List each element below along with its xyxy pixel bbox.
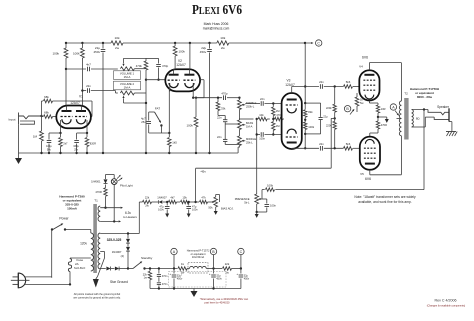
svg-text:5w: 5w bbox=[360, 101, 363, 105]
tube V3 triode a internals bbox=[287, 99, 297, 101]
transformer T2 core bbox=[404, 98, 408, 140]
svg-text:450v: 450v bbox=[216, 278, 222, 281]
svg-text:V5: V5 bbox=[360, 172, 364, 176]
pilot light lamp bbox=[105, 175, 107, 180]
diode 1N4007 (top) bbox=[126, 239, 130, 243]
ground arrow presence bbox=[256, 212, 258, 214]
svg-text:Speaker: Speaker bbox=[437, 105, 450, 109]
svg-text:Mark Huss 2006: Mark Huss 2006 bbox=[204, 22, 229, 26]
svg-text:68k: 68k bbox=[44, 110, 49, 114]
svg-text:2w: 2w bbox=[145, 204, 148, 208]
capacitor 47u 100v bias filter 1 bbox=[166, 202, 168, 206]
svg-text:100k: 100k bbox=[187, 124, 194, 128]
svg-text:4n7: 4n7 bbox=[86, 63, 91, 67]
node C terminal (preamp feed) bbox=[238, 248, 244, 254]
svg-text:22n: 22n bbox=[217, 115, 222, 119]
input jack J1 bbox=[18, 113, 20, 125]
svg-text:T1: T1 bbox=[94, 199, 98, 203]
svg-text:47k: 47k bbox=[201, 196, 206, 200]
resistor 470R V5 cathode bbox=[377, 117, 379, 121]
transformer T1 core bbox=[93, 204, 97, 273]
wire plug to fuse bbox=[25, 283, 70, 285]
potentiometer MIDDLE 25k-L bbox=[238, 136, 242, 146]
switch Standby bbox=[128, 268, 133, 270]
svg-text:Standby: Standby bbox=[141, 256, 153, 260]
resistor 1k5 V2a cathode bbox=[168, 133, 170, 137]
resistor 22k 2w bias feed bbox=[143, 200, 152, 203]
capacitor 32u 450v filter A bbox=[173, 269, 175, 274]
svg-text:4μ7: 4μ7 bbox=[141, 117, 146, 121]
svg-text:450v: 450v bbox=[177, 278, 183, 281]
svg-text:22n: 22n bbox=[319, 142, 324, 146]
wire to V2a grid bbox=[146, 79, 165, 81]
star ground symbol bbox=[96, 277, 98, 280]
resistor 470R tail bbox=[273, 118, 274, 120]
svg-text:22n: 22n bbox=[217, 135, 222, 139]
svg-text:8Ω: 8Ω bbox=[416, 116, 420, 120]
resistor 68k grid stopper (top) bbox=[42, 100, 44, 102]
capacitor 32u 450v filter B bbox=[213, 269, 215, 274]
svg-text:470n: 470n bbox=[162, 275, 168, 278]
tube V5 internals bbox=[365, 139, 374, 143]
pin V1a cathode bbox=[60, 120, 62, 133]
capacitor 22n V3a grid bbox=[260, 101, 262, 106]
svg-text:1N4001: 1N4001 bbox=[91, 180, 101, 184]
resistor 68k grid stopper (bottom) bbox=[42, 116, 44, 118]
svg-text:C: C bbox=[317, 41, 320, 45]
resistor 4k7 bias bbox=[163, 201, 168, 203]
wire treble wiper to V3 grid bbox=[245, 103, 260, 105]
svg-text:22n: 22n bbox=[260, 97, 265, 101]
svg-text:150mA: 150mA bbox=[67, 207, 78, 211]
switch power bbox=[53, 224, 62, 229]
capacitor 470n (bottom) bbox=[158, 277, 160, 281]
capacitor 100u 50v V1a cathode bypass bbox=[49, 132, 61, 134]
choke Hammond P-T157J bbox=[190, 266, 207, 268]
svg-text:+: + bbox=[169, 272, 171, 276]
svg-text:10R: 10R bbox=[381, 107, 386, 111]
diode 1N4007 (left horizontal) bbox=[106, 267, 110, 271]
capacitor 330u 25v V1b cathode bypass bbox=[77, 132, 87, 134]
resistor 33k slope bbox=[217, 98, 219, 102]
svg-text:+: + bbox=[236, 272, 238, 276]
svg-text:available, and work fine for t: available, and work fine for this amp. bbox=[358, 200, 412, 204]
resistor 10k 2w decoupling (right) bbox=[217, 41, 229, 45]
resistor 1k 5w filter bbox=[178, 267, 187, 271]
wire grid node riser bbox=[41, 101, 43, 117]
node B screen supply terminal bbox=[344, 106, 350, 112]
svg-text:Power: Power bbox=[59, 217, 69, 221]
svg-text:120v: 120v bbox=[80, 242, 87, 246]
svg-text:100k: 100k bbox=[179, 50, 186, 54]
svg-text:15k: 15k bbox=[182, 196, 187, 200]
chassis ground symbol (preamp) bbox=[18, 153, 20, 158]
resistor 22k 1w bleeder bbox=[149, 269, 151, 272]
resistor 2k7 V1a cathode bbox=[60, 133, 62, 137]
wire V2b plate to rail bbox=[189, 43, 191, 69]
diode 1N4007 (right horizontal) bbox=[111, 268, 115, 270]
resistor 15k bias bbox=[177, 201, 181, 203]
tube V3 12AX7 phase inverter envelope bbox=[282, 93, 302, 149]
dashed box multi-section cap bbox=[169, 272, 227, 288]
svg-text:5k6: 5k6 bbox=[346, 142, 351, 146]
resistor 100k V2b grid leak bbox=[195, 98, 197, 117]
wire bus end rise to middle pot bbox=[237, 147, 239, 153]
svg-text:12AX7: 12AX7 bbox=[70, 101, 80, 105]
svg-text:100n: 100n bbox=[270, 204, 276, 208]
svg-text:10k: 10k bbox=[259, 113, 264, 117]
svg-text:+: + bbox=[209, 272, 211, 276]
wire to V1b grid bbox=[91, 101, 93, 117]
diode 1N4007 bias bbox=[152, 201, 159, 203]
svg-text:50k: 50k bbox=[208, 205, 213, 209]
potentiometer VOLUME 1 1M-A bbox=[120, 67, 134, 71]
junction V2 grid node bbox=[145, 79, 147, 81]
speaker jack J2 tip contact bbox=[428, 110, 449, 115]
svg-text:1M-A: 1M-A bbox=[124, 75, 131, 79]
wire to V3b grid with cap bbox=[257, 134, 260, 136]
svg-text:6V6: 6V6 bbox=[365, 177, 371, 181]
svg-text:100v: 100v bbox=[192, 208, 198, 212]
junction -45v node bbox=[194, 201, 196, 203]
wire cathode follower to tone stack bbox=[193, 97, 222, 99]
svg-text:Pilot Light: Pilot Light bbox=[120, 184, 133, 188]
svg-text:100k: 100k bbox=[308, 125, 314, 129]
bus junction dots bbox=[40, 152, 42, 154]
svg-text:FAT: FAT bbox=[155, 107, 160, 111]
svg-text:22k: 22k bbox=[225, 262, 230, 266]
arrow into node C bbox=[311, 42, 313, 44]
junction node V1b plate bbox=[81, 89, 83, 91]
svg-text:-45v: -45v bbox=[200, 169, 206, 173]
capacitor 470n (top) bbox=[158, 269, 160, 274]
capacitor 4n7 coupling bbox=[87, 67, 89, 72]
resistor 10R V4 cathode bbox=[376, 105, 379, 113]
svg-text:100v: 100v bbox=[158, 208, 164, 212]
svg-text:All points marked with the gro: All points marked with the ground symbol bbox=[74, 292, 121, 296]
pin V2b cathode bbox=[192, 83, 194, 98]
capacitor 22n middle bbox=[224, 124, 226, 139]
svg-text:470p: 470p bbox=[162, 64, 169, 68]
wire V1b plate to volume 2 with cap bbox=[82, 90, 86, 92]
wire V1a plate riser bbox=[65, 43, 67, 48]
svg-text:68k: 68k bbox=[44, 95, 49, 99]
svg-text:6V6: 6V6 bbox=[362, 56, 368, 60]
resistor 470R pilot bbox=[105, 197, 107, 208]
capacitor 470p treble bbox=[223, 95, 225, 100]
svg-text:V1: V1 bbox=[79, 94, 83, 98]
wire mains hot riser bbox=[51, 230, 53, 278]
junction dots on rail bbox=[65, 42, 67, 44]
svg-text:mark@mhuss.com: mark@mhuss.com bbox=[203, 27, 230, 31]
diode 1N4001 pilot bbox=[104, 179, 108, 183]
svg-text:450v: 450v bbox=[200, 50, 207, 54]
wire coupling to V5 bbox=[292, 147, 319, 149]
svg-text:2k7: 2k7 bbox=[63, 142, 68, 146]
capacitor 100n V3b grid bbox=[260, 132, 262, 137]
svg-text:5k-L: 5k-L bbox=[244, 201, 250, 205]
svg-text:Star Ground: Star Ground bbox=[110, 280, 128, 284]
wire filter ground rail bbox=[150, 288, 241, 290]
svg-text:22k: 22k bbox=[145, 196, 150, 200]
pin V4 plate to OT bbox=[368, 63, 370, 71]
svg-text:10k: 10k bbox=[115, 36, 120, 40]
speaker jack J2 sleeve contact bbox=[434, 117, 449, 119]
svg-text:part here for 40/40/20: part here for 40/40/20 bbox=[205, 301, 231, 305]
svg-text:BIAS ADJ.: BIAS ADJ. bbox=[221, 207, 234, 211]
capacitor 22n bass bbox=[218, 115, 225, 117]
pin V4 cathode bbox=[368, 101, 370, 104]
svg-text:250k-L: 250k-L bbox=[246, 105, 255, 109]
svg-text:2A: 2A bbox=[75, 262, 79, 266]
tube V2 triode a internals bbox=[169, 74, 179, 76]
diode 1N4007 (bottom) bbox=[127, 244, 129, 247]
svg-text:to Heaters: to Heaters bbox=[123, 215, 137, 219]
wire NFB line bbox=[262, 189, 265, 191]
resistor 100k V1a plate load bbox=[64, 48, 68, 58]
svg-text:1w: 1w bbox=[144, 277, 147, 280]
pin V1a plate bbox=[66, 106, 68, 111]
junction bias node bbox=[334, 117, 336, 119]
wire B+ top rail bbox=[66, 42, 111, 44]
wire choke to B bbox=[206, 268, 222, 270]
resistor 1M input load bbox=[41, 117, 43, 131]
wire A to rail bbox=[173, 255, 175, 269]
pin V1b plate bbox=[81, 106, 83, 111]
tube V4 6V6 envelope bbox=[359, 70, 379, 100]
wire V1a plate to volume 1 with bright cap bbox=[66, 68, 86, 70]
plug AC mains bbox=[18, 273, 25, 288]
svg-text:25v: 25v bbox=[141, 120, 146, 124]
pin V3b plate to coupling line bbox=[291, 147, 293, 150]
transformer T1 primary winding bbox=[91, 233, 94, 271]
capacitor 32u 450v filter C bbox=[240, 269, 242, 274]
svg-text:5k6: 5k6 bbox=[346, 80, 351, 84]
tube V5 6V6 envelope bbox=[360, 137, 380, 170]
capacitor 22n coupling V5 bbox=[319, 146, 321, 151]
svg-text:C: C bbox=[240, 250, 243, 254]
node A terminal at OT center tap bbox=[390, 104, 396, 110]
capacitor 22u 450v filter (mid) bbox=[209, 43, 211, 49]
resistor 100k V2a plate load bbox=[174, 43, 176, 46]
potentiometer TREBLE 250k-L bbox=[238, 97, 240, 99]
svg-text:10H 60mA: 10H 60mA bbox=[192, 255, 205, 259]
svg-text:100k: 100k bbox=[73, 52, 80, 56]
wire input to grid resistors bbox=[40, 115, 42, 117]
resistor 100k NFB bbox=[266, 188, 275, 192]
svg-text:MIDDLE: MIDDLE bbox=[246, 137, 256, 141]
svg-text:1M: 1M bbox=[33, 135, 38, 139]
pin V2b grid bbox=[200, 79, 204, 81]
resistor 47k bias bbox=[196, 201, 199, 203]
pin V5 cathode bbox=[369, 133, 371, 137]
tube V2 12AX7 envelope bbox=[165, 69, 200, 91]
resistor 100k V1b plate load bbox=[81, 48, 85, 58]
ground arrow cathode bbox=[378, 116, 387, 118]
tube V2 triode b internals bbox=[184, 74, 194, 76]
svg-text:100k: 100k bbox=[52, 52, 59, 56]
wire bias tap bbox=[138, 202, 140, 234]
wire mid node to V3 bbox=[239, 118, 253, 120]
tube V1 triode a internals bbox=[62, 110, 72, 112]
svg-text:100n: 100n bbox=[259, 136, 265, 140]
pin V1b cathode bbox=[86, 120, 88, 133]
wire HV bottom to rectifier bbox=[100, 268, 106, 270]
tube V4 internals bbox=[364, 74, 374, 76]
svg-text:470p: 470p bbox=[221, 92, 228, 96]
svg-text:PLEXI 6V6: PLEXI 6V6 bbox=[192, 3, 242, 18]
junction plate loads mid bbox=[304, 119, 306, 121]
svg-text:4k7: 4k7 bbox=[170, 196, 175, 200]
capacitor 470p bright bbox=[158, 58, 160, 63]
ground hatched (speaker) bbox=[446, 131, 456, 133]
wire B+ riser / plate resistor column bbox=[304, 43, 306, 110]
wire OT secondary to speaker jack bbox=[412, 109, 428, 111]
svg-text:V4: V4 bbox=[359, 65, 363, 69]
wire coupling to V4 bbox=[292, 86, 319, 88]
resistor 5k6 V4 grid stopper bbox=[344, 85, 353, 89]
fuse 2A SLO-BLO bbox=[69, 272, 71, 285]
resistor 22k 2w filter bbox=[223, 267, 232, 271]
potentiometer PRESENCE 5k-L bbox=[255, 194, 259, 204]
resistor 10k 2w decoupling (left) bbox=[111, 41, 123, 45]
svg-text:22n: 22n bbox=[319, 80, 324, 84]
wire V1b plate riser bbox=[81, 43, 83, 48]
transformer T2 secondary winding bbox=[412, 110, 414, 128]
tube V3 triode b internals bbox=[287, 129, 296, 134]
capacitor 22u 450v filter (left) bbox=[102, 43, 104, 49]
svg-text:82k: 82k bbox=[308, 110, 313, 114]
resistor 1M V3 grid leak (top) bbox=[272, 102, 274, 104]
speaker jack J2 body bbox=[448, 108, 450, 121]
pin V3a plate to coupling line bbox=[291, 87, 293, 94]
resistor 100k V3 plate load bbox=[304, 122, 307, 130]
capacitor 22n coupling ch2 bbox=[87, 88, 89, 93]
wire NFB tap bbox=[423, 108, 425, 110]
wire 6.3v heater bottom bbox=[100, 220, 118, 222]
svg-text:PRESENCE: PRESENCE bbox=[235, 197, 250, 201]
transformer T1 HV secondary bbox=[98, 233, 100, 269]
svg-text:1N4007: 1N4007 bbox=[157, 196, 167, 200]
pin V2a plate bbox=[173, 69, 175, 74]
svg-text:are connected to ground at thi: are connected to ground at this point on… bbox=[73, 296, 121, 300]
wire plug to switch bbox=[25, 276, 52, 278]
potentiometer 50k BIAS ADJ bbox=[212, 201, 214, 203]
svg-text:325-0-325: 325-0-325 bbox=[107, 238, 122, 242]
wire HV center tap to star ground bbox=[100, 251, 104, 253]
pin V2b plate bbox=[188, 69, 190, 74]
svg-text:(4): (4) bbox=[121, 254, 124, 258]
svg-text:Rev C 4/2006: Rev C 4/2006 bbox=[435, 299, 457, 303]
resistor 5k6 V5 grid stopper bbox=[344, 147, 353, 151]
wire jack to ground bbox=[449, 121, 452, 123]
wire pilot return bbox=[113, 185, 115, 222]
pin V2a cathode bbox=[169, 83, 171, 91]
wire HV top to rectifier bbox=[100, 233, 128, 235]
junction node V1a plate bbox=[65, 68, 67, 70]
wire -45v rail bbox=[195, 168, 197, 202]
wire volume 1 wiper to mixer bbox=[124, 57, 147, 59]
svg-text:450v: 450v bbox=[244, 278, 250, 281]
wire 6.3v heater top bbox=[100, 207, 120, 209]
wire decoupling loop bbox=[305, 102, 320, 104]
svg-text:1M-A: 1M-A bbox=[124, 86, 131, 90]
transformer T2 primary winding bbox=[399, 101, 401, 136]
resistor 82k V3 plate load bbox=[304, 110, 307, 118]
tube V1 triode b internals bbox=[76, 110, 86, 112]
wire standby to filter rail bbox=[145, 268, 178, 270]
node B terminal (screens) bbox=[210, 248, 216, 254]
resistor 1M V3 grid leak (bottom) bbox=[272, 119, 274, 122]
wire OT center tap bbox=[397, 117, 402, 119]
potentiometer VOLUME 2 1M-A bbox=[120, 91, 134, 95]
svg-text:(Changes for available compone: (Changes for available components) bbox=[427, 304, 466, 307]
node C terminal (preamp B+) bbox=[316, 40, 322, 46]
svg-text:1k5: 1k5 bbox=[172, 141, 177, 145]
svg-text:Input: Input bbox=[9, 117, 16, 121]
tube V1 12AX7 envelope bbox=[56, 106, 91, 129]
svg-text:33k: 33k bbox=[221, 107, 226, 111]
svg-text:450v: 450v bbox=[93, 50, 100, 54]
svg-text:10k: 10k bbox=[220, 36, 225, 40]
svg-text:T2: T2 bbox=[404, 92, 408, 96]
svg-text:470n: 470n bbox=[162, 283, 168, 286]
capacitor 47u 100v bias filter 2 bbox=[188, 202, 190, 206]
svg-text:*Alternatively, use a 40/20/20: *Alternatively, use a 40/20/20/20 450v c… bbox=[200, 297, 249, 301]
capacitor 100n presence bbox=[262, 198, 267, 200]
capacitor 22u decoupling bbox=[319, 117, 323, 119]
svg-text:SLO-BLO: SLO-BLO bbox=[74, 266, 85, 270]
svg-text:12AX7: 12AX7 bbox=[176, 63, 186, 67]
node A terminal (main B+) bbox=[171, 248, 177, 254]
wire NFB to wiper bbox=[261, 190, 263, 199]
svg-text:100k: 100k bbox=[267, 183, 274, 187]
resistor 1k 5w screen supply bbox=[356, 93, 358, 97]
svg-text:470k: 470k bbox=[136, 64, 143, 68]
wire presence riser from PI tail bbox=[256, 119, 258, 194]
resistor 820R V1b cathode bbox=[86, 133, 88, 137]
pin V5 plate to OT bbox=[369, 170, 371, 175]
capacitor 22n coupling V4 bbox=[319, 84, 321, 89]
resistor 10k tail feed bbox=[258, 117, 267, 121]
resistor 220k V5 grid leak bbox=[334, 118, 336, 121]
transformer T1 heater secondary bbox=[98, 206, 100, 221]
svg-text:25k-L: 25k-L bbox=[246, 141, 253, 145]
svg-text:470R: 470R bbox=[381, 123, 387, 127]
svg-text:BASS: BASS bbox=[246, 121, 253, 125]
wire preamp ground bus bbox=[19, 152, 239, 154]
ground arrow filter bbox=[193, 289, 195, 292]
wire volume 2 wiper to mixer bbox=[124, 102, 147, 104]
potentiometer BASS 1M-A bbox=[238, 120, 242, 130]
svg-text:1M-A: 1M-A bbox=[246, 125, 253, 129]
svg-text:22n: 22n bbox=[86, 84, 91, 88]
svg-text:8000 - 20w: 8000 - 20w bbox=[417, 95, 433, 99]
wire volume cold ends bbox=[134, 68, 146, 70]
svg-text:820R: 820R bbox=[90, 142, 96, 146]
resistor 470k mixer (ch1) bbox=[145, 58, 147, 61]
switch FAT bbox=[149, 111, 155, 113]
svg-text:470R: 470R bbox=[95, 190, 101, 194]
resistor 220k V4 grid leak bbox=[334, 85, 336, 87]
svg-text:220k: 220k bbox=[326, 106, 332, 110]
svg-text:Note: "18watt" transformer set: Note: "18watt" transformer sets are wide… bbox=[354, 195, 416, 199]
capacitor 4u7 25v FAT bbox=[149, 132, 170, 134]
svg-text:22μ: 22μ bbox=[323, 114, 328, 118]
